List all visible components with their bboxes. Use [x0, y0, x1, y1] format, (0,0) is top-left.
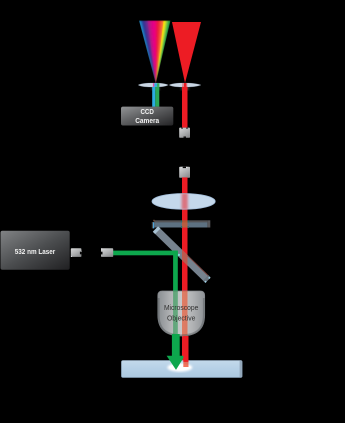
- green excitation arrow shaft: [172, 334, 180, 357]
- objective bottom shading: [158, 298, 205, 336]
- pinhole aperture 1: [179, 128, 190, 138]
- svg-text:Camera: Camera: [135, 118, 159, 125]
- focusing lens L2 (right, red path): [169, 83, 201, 87]
- focal spot glow: [167, 363, 192, 371]
- glow under lens L1: [151, 87, 160, 90]
- svg-text:Objective: Objective: [167, 314, 196, 322]
- focused spectrum beam (green stripe): [155, 87, 159, 107]
- red beam entering slide: [183, 362, 188, 367]
- green excitation arrow head: [167, 356, 185, 370]
- beams seen through objective: [173, 291, 187, 336]
- svg-text:CCD: CCD: [140, 109, 154, 116]
- spectrum stripes seen through lens L1: [153, 83, 160, 87]
- glow under lens L2: [180, 87, 189, 90]
- red beam seen through lens L2: [182, 83, 187, 87]
- red beam upper segment (lens to pinhole 1): [182, 87, 188, 128]
- dichroic mirror (diagonal): [153, 226, 211, 283]
- microscope objective body: [158, 291, 205, 336]
- spectrum cone (dispersed light to spectrometer): [139, 21, 171, 85]
- svg-text:Microscope: Microscope: [164, 304, 199, 312]
- green laser beam vertical segment: [173, 251, 178, 292]
- notch filter bar (horizontal): [152, 220, 210, 229]
- red beam seen through tube lens: [180, 194, 189, 210]
- cyan glint at green reflection point: [178, 254, 180, 256]
- 532 nm laser box: [1, 231, 70, 270]
- green laser beam horizontal segment: [112, 251, 178, 256]
- CCD camera box: [121, 107, 173, 126]
- laser output optic B: [101, 248, 113, 257]
- focused spectrum beam (blue stripe): [152, 87, 155, 107]
- focusing lens L1 (left, before CCD): [138, 83, 168, 87]
- red beam over notch filter: [182, 220, 188, 227]
- red cone (laser light path): [172, 22, 201, 83]
- sample slide: [121, 360, 242, 377]
- red beam lower segment: [183, 336, 188, 362]
- laser output optic A: [71, 248, 82, 257]
- magenta core tint near apex: [148, 21, 164, 85]
- red beam main vertical segment: [182, 177, 188, 362]
- tube lens (large ellipse): [152, 194, 215, 210]
- teal glints at beam/filter corners: [181, 221, 189, 229]
- svg-text:532 nm Laser: 532 nm Laser: [15, 247, 56, 256]
- red beam over dichroic mirror: [182, 238, 188, 272]
- pinhole aperture 2: [179, 167, 190, 178]
